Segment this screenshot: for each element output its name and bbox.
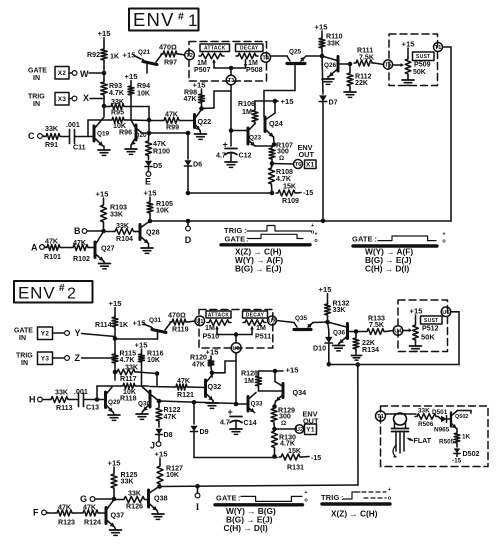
svg-text:#: # <box>59 283 65 294</box>
svg-text:Q31: Q31 <box>149 317 162 324</box>
svg-text:Q32: Q32 <box>208 382 222 391</box>
svg-text:U2: U2 <box>296 427 303 433</box>
svg-text:R97: R97 <box>164 59 177 67</box>
svg-text:1K: 1K <box>110 53 120 61</box>
svg-text:B(G) → E(J): B(G) → E(J) <box>235 264 282 274</box>
svg-text:Y: Y <box>75 328 81 338</box>
svg-text:10K: 10K <box>147 356 161 364</box>
svg-text:R100: R100 <box>153 148 170 156</box>
svg-text:X: X <box>83 93 89 103</box>
svg-text:C: C <box>28 131 35 141</box>
svg-text:470Ω: 470Ω <box>168 311 186 320</box>
svg-text:P512: P512 <box>422 325 439 333</box>
svg-text:R119: R119 <box>172 326 189 334</box>
svg-text:Q35: Q35 <box>295 315 308 322</box>
svg-text:Q502: Q502 <box>455 414 468 420</box>
svg-text:GATE: GATE <box>28 68 47 75</box>
svg-text:IN: IN <box>33 75 40 82</box>
svg-text:Q36: Q36 <box>333 330 346 337</box>
svg-text:R506: R506 <box>418 421 434 428</box>
svg-text:N965: N965 <box>434 427 450 434</box>
svg-text:Y2: Y2 <box>41 331 50 338</box>
svg-text:22K: 22K <box>355 79 369 87</box>
svg-text:OUT: OUT <box>303 417 319 426</box>
svg-text:D10: D10 <box>313 345 326 353</box>
svg-text:-15: -15 <box>303 190 313 197</box>
svg-text:-15: -15 <box>452 458 462 465</box>
svg-text:Q34: Q34 <box>293 388 307 397</box>
svg-text:Q21: Q21 <box>138 49 151 56</box>
svg-text:GATE: GATE <box>225 235 246 244</box>
svg-text:47K: 47K <box>83 504 97 512</box>
svg-text:X3: X3 <box>58 96 67 103</box>
svg-text:D8: D8 <box>164 431 173 439</box>
svg-text:C(H) → D(I): C(H) → D(I) <box>365 264 409 274</box>
svg-text:SUST: SUST <box>416 54 431 60</box>
svg-text:47K: 47K <box>58 504 72 512</box>
svg-text:R505: R505 <box>439 439 455 446</box>
svg-text:IN: IN <box>19 335 26 342</box>
svg-text:T1: T1 <box>435 45 443 51</box>
svg-text:47K: 47K <box>177 377 191 385</box>
svg-text:470Ω: 470Ω <box>159 43 177 52</box>
svg-text:T1: T1 <box>377 414 385 420</box>
svg-text:+15: +15 <box>286 366 300 375</box>
svg-text:Y1: Y1 <box>306 427 315 434</box>
svg-text:ATTACK: ATTACK <box>204 46 226 52</box>
svg-text:C(H) → D(I): C(H) → D(I) <box>224 523 268 533</box>
svg-text:Ω: Ω <box>281 420 286 427</box>
svg-text:D6: D6 <box>193 161 202 169</box>
svg-text:Q25: Q25 <box>289 49 302 56</box>
svg-text:R106: R106 <box>238 100 255 108</box>
svg-text:R134: R134 <box>362 346 379 354</box>
svg-text:+15: +15 <box>155 450 169 459</box>
svg-text:.001: .001 <box>74 388 88 396</box>
svg-text:+: + <box>228 407 233 417</box>
svg-text:1M: 1M <box>256 324 266 332</box>
svg-text:GATE: GATE <box>352 235 373 244</box>
svg-text:R123: R123 <box>58 519 75 527</box>
svg-text:33K: 33K <box>110 211 124 219</box>
svg-text:ENV: ENV <box>18 284 55 303</box>
svg-text:SUST: SUST <box>424 318 439 324</box>
svg-text:+15: +15 <box>133 319 147 328</box>
svg-text:OUT: OUT <box>299 150 315 159</box>
svg-text:T4: T4 <box>262 55 270 61</box>
svg-text:D5: D5 <box>153 162 162 170</box>
svg-text:47K: 47K <box>165 111 179 119</box>
svg-text:Z: Z <box>75 353 81 363</box>
svg-text:33K: 33K <box>333 306 347 314</box>
svg-text:Q24: Q24 <box>269 119 283 128</box>
svg-text:TRIG: TRIG <box>16 353 33 360</box>
svg-text:P508: P508 <box>246 66 263 74</box>
svg-text:R102: R102 <box>73 255 90 263</box>
svg-text:C12: C12 <box>239 152 252 160</box>
svg-text::: : <box>238 494 240 503</box>
svg-text:7.5K: 7.5K <box>359 54 375 62</box>
svg-text:R96: R96 <box>119 129 132 137</box>
svg-text:X1: X1 <box>306 162 315 169</box>
svg-text:ATTACK: ATTACK <box>208 312 230 318</box>
svg-text:+: + <box>314 232 317 238</box>
svg-text:10K: 10K <box>156 207 170 215</box>
svg-text:FLAT: FLAT <box>414 437 432 445</box>
svg-text:50K: 50K <box>413 69 426 76</box>
svg-text:Q28: Q28 <box>146 228 160 237</box>
svg-text:Q22: Q22 <box>198 117 212 126</box>
svg-text:4.7K: 4.7K <box>109 89 125 97</box>
svg-text:33K: 33K <box>55 389 69 397</box>
svg-text:Q37: Q37 <box>111 511 125 520</box>
svg-text:Q27: Q27 <box>101 244 115 253</box>
svg-text:U5: U5 <box>442 310 450 316</box>
svg-text:+: + <box>311 223 314 229</box>
svg-text:50K: 50K <box>421 333 435 342</box>
svg-text:10K: 10K <box>166 471 180 479</box>
svg-text:G: G <box>80 494 87 504</box>
svg-text:IN: IN <box>33 101 40 108</box>
svg-text:R113: R113 <box>56 404 73 412</box>
svg-text:+15: +15 <box>125 72 139 81</box>
svg-text::: : <box>375 235 377 244</box>
svg-text:A: A <box>31 243 38 253</box>
svg-text:D9: D9 <box>200 428 209 436</box>
svg-text:D: D <box>185 235 192 245</box>
svg-text:1K: 1K <box>462 434 471 441</box>
svg-text:+: + <box>388 487 391 493</box>
svg-text:GATE: GATE <box>14 328 33 335</box>
svg-text:P507: P507 <box>194 66 211 74</box>
svg-text:10K: 10K <box>137 90 151 98</box>
svg-text:T6: T6 <box>295 162 303 168</box>
svg-text:R121: R121 <box>177 391 194 399</box>
svg-text:T3: T3 <box>228 78 236 84</box>
svg-text:+15: +15 <box>96 190 110 199</box>
svg-text:15K: 15K <box>283 183 297 191</box>
svg-text:C11: C11 <box>73 144 86 152</box>
svg-text:B: B <box>74 226 81 236</box>
svg-text:1: 1 <box>188 11 197 30</box>
svg-text:33K: 33K <box>45 125 59 133</box>
svg-text:X2: X2 <box>58 70 67 77</box>
svg-text:I: I <box>196 502 200 512</box>
svg-text:1M: 1M <box>205 324 215 332</box>
svg-text:DECAY: DECAY <box>246 312 265 318</box>
svg-text:R124: R124 <box>84 519 101 527</box>
svg-text:R95: R95 <box>111 109 124 117</box>
svg-text:7.5K: 7.5K <box>369 321 385 329</box>
svg-text:C13: C13 <box>86 404 99 412</box>
svg-text:IN: IN <box>21 360 28 367</box>
svg-text:1K: 1K <box>119 321 129 329</box>
svg-text:R99: R99 <box>166 124 179 132</box>
svg-text:+15: +15 <box>410 307 424 316</box>
svg-text:+15: +15 <box>98 29 112 38</box>
svg-text:R91: R91 <box>45 141 58 149</box>
svg-text:D502: D502 <box>463 450 480 458</box>
svg-text:E: E <box>145 177 151 187</box>
svg-text:+15: +15 <box>315 23 329 32</box>
svg-text:Q29: Q29 <box>108 399 121 406</box>
svg-text:C14: C14 <box>244 419 257 427</box>
svg-text:ENV: ENV <box>133 9 175 30</box>
svg-text:R104: R104 <box>116 235 133 243</box>
svg-text:2: 2 <box>67 286 76 303</box>
svg-text:R117: R117 <box>120 375 137 383</box>
svg-text:Ω: Ω <box>279 155 284 162</box>
svg-text:U6: U6 <box>232 346 240 352</box>
svg-text:R126: R126 <box>126 503 143 511</box>
svg-text:47K: 47K <box>192 361 206 369</box>
svg-text:R118: R118 <box>120 395 137 403</box>
svg-text:1M: 1M <box>244 377 254 385</box>
svg-text:W: W <box>80 69 89 79</box>
svg-text:+15: +15 <box>144 189 158 198</box>
svg-text:U1: U1 <box>196 319 204 325</box>
svg-text:R114: R114 <box>95 321 112 329</box>
svg-text:+15: +15 <box>135 341 149 350</box>
svg-text:+15: +15 <box>109 299 123 308</box>
svg-text:Q19: Q19 <box>97 131 110 138</box>
svg-text:+15: +15 <box>319 285 333 294</box>
svg-text:Q38: Q38 <box>154 494 168 503</box>
svg-text::: : <box>341 493 343 502</box>
svg-text:DECAY: DECAY <box>240 46 259 52</box>
svg-text:Y3: Y3 <box>41 356 50 363</box>
svg-text:D7: D7 <box>329 99 338 107</box>
svg-text:47K: 47K <box>184 95 198 103</box>
svg-text:R131: R131 <box>287 464 304 472</box>
svg-text:F: F <box>33 508 39 518</box>
svg-text:Q33: Q33 <box>251 401 264 408</box>
svg-text:+15: +15 <box>281 97 295 106</box>
svg-text:-15: -15 <box>311 455 321 462</box>
svg-text:33K: 33K <box>125 364 139 372</box>
svg-text:+: + <box>442 232 445 238</box>
svg-text:33K: 33K <box>128 490 142 498</box>
svg-text:Q23: Q23 <box>249 135 262 142</box>
svg-text:33K: 33K <box>327 40 341 48</box>
svg-text:X(Z) → C(H): X(Z) → C(H) <box>331 509 378 519</box>
svg-text:P509: P509 <box>414 61 431 69</box>
svg-text:+15: +15 <box>108 459 122 468</box>
svg-text:47K: 47K <box>164 413 178 421</box>
svg-text:+: + <box>304 490 307 496</box>
svg-text:GATE: GATE <box>216 494 237 503</box>
svg-text:33K: 33K <box>121 478 135 486</box>
svg-text:P511: P511 <box>255 333 271 341</box>
svg-text:+15: +15 <box>206 348 220 357</box>
svg-text:U3: U3 <box>268 319 276 325</box>
svg-text:15K: 15K <box>288 447 302 455</box>
svg-text:.001: .001 <box>66 121 80 129</box>
svg-text:R109: R109 <box>282 197 299 205</box>
svg-text:1M: 1M <box>242 108 252 116</box>
svg-text:R92: R92 <box>87 51 100 59</box>
svg-text:TRIG: TRIG <box>28 94 45 101</box>
svg-text:P510: P510 <box>203 333 220 341</box>
svg-text:+15: +15 <box>402 40 416 49</box>
svg-text:4.7: 4.7 <box>220 419 230 427</box>
svg-text:TRIG: TRIG <box>321 493 340 502</box>
svg-text:Q26: Q26 <box>324 62 337 69</box>
svg-text:H: H <box>29 395 36 405</box>
svg-text:R101: R101 <box>44 253 61 261</box>
svg-text:D501: D501 <box>432 409 448 416</box>
svg-text:#: # <box>178 11 184 23</box>
svg-text:4.7: 4.7 <box>216 152 226 160</box>
